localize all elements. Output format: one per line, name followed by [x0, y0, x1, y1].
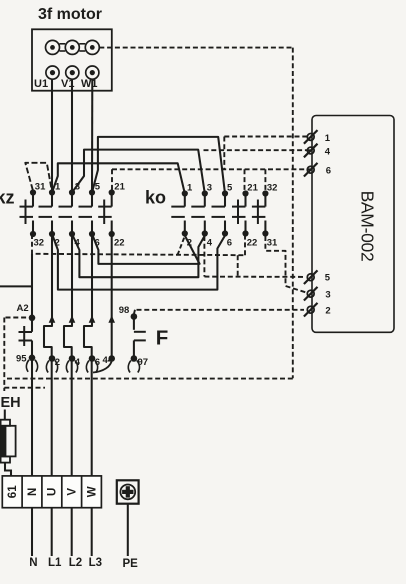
dashed wire kz32 to ko22: [32, 234, 245, 255]
motor terminal U1: [46, 66, 59, 79]
socket prongs 4: [66, 361, 69, 373]
svg-text:21: 21: [114, 182, 125, 193]
svg-text:61: 61: [7, 485, 19, 498]
svg-text:EH: EH: [1, 395, 21, 411]
wire kz32 down to A2 node: [31, 254, 33, 318]
heater element EH: [0, 410, 15, 476]
wire kz2 (L1) to ko6: [52, 234, 225, 290]
PE earth terminal: [117, 480, 139, 503]
svg-text:5: 5: [325, 273, 331, 284]
svg-text:21: 21: [247, 183, 258, 194]
svg-text:1: 1: [55, 182, 61, 193]
motor terminal V1: [66, 66, 79, 79]
dashed slant tap into ko2: [178, 236, 185, 255]
wire kz6 (L3) to ko2: [92, 234, 200, 264]
ko NO contact 5-6: [212, 190, 229, 236]
wire U1 to kz contact 1: [51, 79, 53, 192]
wire L1 tail: [51, 508, 53, 556]
socket prongs 2: [46, 361, 49, 373]
wire PE tail: [127, 504, 129, 556]
socket terminal 6: [89, 355, 96, 362]
svg-text:98: 98: [119, 305, 130, 316]
ko NC contact 32-31: [252, 190, 269, 236]
svg-text:L1: L1: [48, 557, 62, 569]
wire L2 tail: [71, 508, 73, 556]
svg-text:3f motor: 3f motor: [38, 6, 102, 23]
svg-text:4: 4: [207, 238, 213, 249]
wire W1 to kz contact 5: [91, 79, 93, 192]
terminal 98 dot: [131, 313, 138, 320]
svg-text:V: V: [67, 488, 79, 496]
dashed riser BAM1 to interlock: [223, 137, 225, 170]
svg-text:W: W: [86, 486, 98, 497]
dashed wire A2 branch down to EH: [3, 318, 5, 392]
svg-text:U1: U1: [34, 78, 48, 90]
dashed stub lower left: [4, 387, 45, 389]
F contact upper plate: [134, 331, 146, 333]
motor thermal terminal 1: [46, 40, 60, 54]
plug arrow wire 2: [49, 315, 56, 323]
svg-text:32: 32: [34, 238, 45, 249]
svg-text:L2: L2: [69, 557, 82, 569]
dashed link between control lines: [237, 255, 239, 276]
dashed wire kz31 tap to kz1: [25, 163, 51, 190]
heater jog L2: [64, 234, 72, 476]
BAM terminal 5: [304, 270, 331, 284]
svg-text:U: U: [47, 488, 59, 496]
motor thermal terminal 3: [85, 40, 99, 54]
heater jog L3: [84, 234, 92, 476]
svg-text:22: 22: [247, 238, 258, 249]
dashed drop to ko32: [264, 169, 266, 190]
BAM terminal 1: [304, 130, 331, 144]
svg-text:3: 3: [325, 290, 330, 301]
svg-text:N: N: [29, 557, 37, 569]
wire kz5 to ko5 (line A): [92, 137, 225, 194]
svg-text:6: 6: [227, 238, 232, 249]
wire 98 stub: [133, 317, 135, 330]
dashed wire to BAM 4: [204, 149, 311, 151]
wire V1 to kz contact 3: [71, 79, 73, 192]
socket terminal 4: [69, 355, 76, 362]
motor terminal W1: [86, 66, 99, 79]
kz NC contact 31-32: [20, 189, 37, 237]
svg-text:4: 4: [325, 147, 331, 158]
ko NO contact 1-2: [171, 190, 188, 236]
dashed interlock line to BAM 6: [112, 168, 311, 170]
wire kz1 to ko1 (line C): [52, 163, 185, 193]
wire 95 down to N terminal: [31, 358, 33, 476]
svg-text:3: 3: [75, 182, 80, 193]
ko NC contact 21-22: [232, 190, 249, 236]
dashed drop from ko4 to BAM5 line: [203, 236, 205, 277]
svg-text:31: 31: [267, 238, 278, 249]
motor terminal box: [32, 29, 112, 90]
svg-text:6: 6: [326, 166, 331, 177]
dashed drop to ko21: [244, 169, 246, 190]
kz NO contact 1-2: [39, 189, 56, 237]
dashed wire motor thermal contact to right: [99, 47, 292, 49]
dashed wire ko31 to BAM 3: [265, 236, 306, 293]
svg-text:F: F: [156, 327, 169, 350]
wire L3 tail: [91, 508, 93, 556]
svg-text:1: 1: [325, 133, 331, 144]
wire to socket 95: [31, 341, 33, 358]
kz NO contact 3-4: [59, 189, 76, 237]
overload NC contact 95-96: [31, 318, 33, 332]
BAM terminal 2: [304, 303, 331, 317]
wire kz2 down to U terminal (L1): [44, 234, 52, 476]
dashed drop to kz21: [111, 169, 113, 189]
svg-text:5: 5: [227, 183, 233, 194]
dashed control bus bottom: [4, 378, 293, 380]
wire N tail: [31, 508, 33, 556]
svg-text:PE: PE: [123, 558, 139, 570]
socket terminal 2: [49, 355, 56, 362]
svg-text:32: 32: [267, 183, 278, 194]
ko NO contact 3-4: [191, 190, 208, 236]
kz NO contact 5-6: [79, 189, 96, 237]
dashed wire 98 to BAM 2: [137, 309, 305, 311]
svg-text:95: 95: [16, 354, 27, 365]
svg-text:1: 1: [187, 183, 193, 194]
svg-text:3: 3: [207, 183, 212, 194]
BAM terminal 4: [304, 144, 331, 158]
svg-text:5: 5: [95, 182, 101, 193]
socket prongs 97: [128, 361, 131, 373]
svg-text:L3: L3: [89, 557, 102, 569]
dashed wire to BAM 1: [224, 136, 310, 138]
socket prongs 6: [86, 361, 89, 373]
svg-text:31: 31: [35, 182, 46, 193]
wire from left edge to A2 node: [0, 285, 32, 287]
svg-text:2: 2: [325, 306, 330, 317]
BAM-002 module box: [312, 116, 394, 333]
plug arrow wire 4: [69, 315, 76, 323]
kz NC contact 21-22: [98, 189, 115, 237]
wire to 97: [133, 340, 135, 358]
svg-text:kz: kz: [0, 188, 15, 208]
dashed riser to ko22: [244, 236, 246, 255]
coil terminal A2 dot: [29, 315, 36, 322]
svg-text:N: N: [27, 488, 39, 496]
terminal strip 61 N U V W: [2, 476, 101, 508]
dashed wire to BAM 5: [204, 276, 304, 278]
svg-text:A2: A2: [17, 303, 29, 314]
plug arrow wire 6: [89, 315, 96, 323]
wire kz4 (L2) to ko4: [72, 234, 205, 277]
socket terminal 44: [108, 355, 115, 362]
svg-text:BAM-002: BAM-002: [358, 191, 378, 262]
socket terminal 95: [29, 355, 36, 362]
svg-text:22: 22: [114, 238, 125, 249]
terminal link bars: [60, 44, 66, 51]
plug arrow wire 44: [108, 315, 115, 323]
svg-text:ko: ko: [145, 188, 166, 208]
dashed wire down right side: [292, 48, 294, 379]
BAM terminal 6: [304, 163, 331, 177]
terminal 97 dot: [131, 355, 138, 362]
motor thermal terminal 2: [65, 40, 79, 54]
dashed wire to A2 dot: [6, 317, 29, 319]
jumper 44 to L3 wire: [93, 360, 112, 373]
wire kz22 down to 44: [111, 234, 113, 359]
svg-text:W1: W1: [81, 78, 98, 90]
wire kz3 to ko3 (line B): [72, 150, 205, 194]
socket prongs 95: [26, 360, 29, 372]
F contact lower plate: [134, 339, 146, 341]
BAM terminal 3: [304, 287, 331, 301]
dashed corner to 98: [134, 310, 135, 314]
